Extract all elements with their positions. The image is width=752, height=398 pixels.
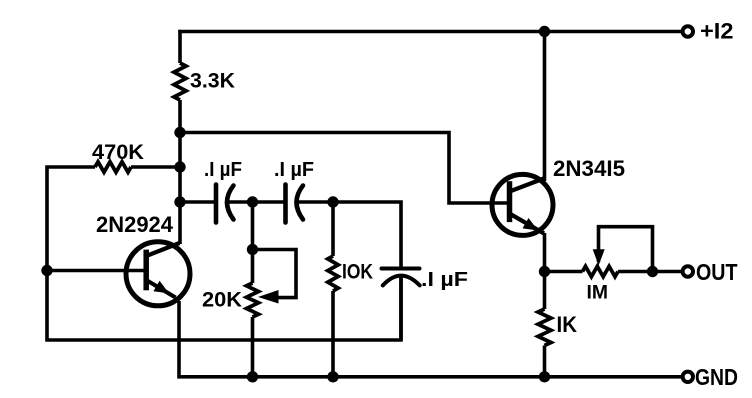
transistor Q1 collector stroke xyxy=(146,243,179,256)
wire: C2/10K node down to R4 xyxy=(331,202,335,256)
wire: R2 left lead, left feedback vertical and bottom return to C3 xyxy=(47,167,401,340)
junction: collector node / wire to Q2 base xyxy=(174,127,185,138)
junction: OUT node (Q2 emitter) xyxy=(539,266,550,277)
terminal OUT xyxy=(683,266,693,276)
junction: C1/20K node xyxy=(247,196,258,207)
svg-text:IK: IK xyxy=(557,312,578,337)
svg-text:IOK: IOK xyxy=(342,261,373,284)
wire: top lead of R1 from +12 rail xyxy=(178,30,182,63)
junction: C2/10K node xyxy=(327,196,338,207)
potentiometer R5 1M xyxy=(583,266,619,276)
junction: 1K on ground rail xyxy=(539,371,550,382)
svg-text:2N34I5: 2N34I5 xyxy=(553,156,625,181)
resistor R2 470K (feedback bias) xyxy=(95,162,131,172)
svg-text:.I µF: .I µF xyxy=(421,269,468,291)
junction: Q2 collector tap on +12 rail xyxy=(539,26,550,37)
resistor R1 3.3K xyxy=(174,63,186,100)
capacitor C1 .1uF (curved plate) xyxy=(227,186,234,220)
wire: 1M wiper bracket xyxy=(599,227,653,272)
wire: collector node to Q2 base xyxy=(180,133,508,204)
wire: 20K bottom lead to ground rail xyxy=(251,317,255,377)
wire: C1 left lead xyxy=(180,200,216,204)
transistor Q2 emitter stroke xyxy=(510,214,545,234)
transistor Q1 2N2924 (body circle) xyxy=(126,242,190,306)
wire: Q2 collector from +12 rail xyxy=(543,32,547,182)
junction: 20K on ground rail xyxy=(247,371,258,382)
capacitor C3 .1uF (straight plate) xyxy=(382,267,420,271)
svg-text:IM: IM xyxy=(587,282,609,303)
resistor R6 1K xyxy=(538,309,551,346)
wire: R4 bottom lead to ground rail xyxy=(331,291,335,377)
transistor Q2 emitter arrowhead xyxy=(523,218,539,231)
wire: C3 bottom lead xyxy=(399,276,403,341)
svg-text:GND: GND xyxy=(695,364,738,390)
wiper arrow of 1M pot xyxy=(593,249,605,265)
junction: C1 input on collector node xyxy=(174,196,185,207)
wire: C1 to C2 xyxy=(228,200,286,204)
junction: 1M wiper tie on output xyxy=(647,266,658,277)
transistor Q2 2N3415 (body circle) xyxy=(492,174,553,235)
transistor Q1 base bar xyxy=(143,250,149,291)
svg-text:OUT: OUT xyxy=(696,259,738,285)
wire: C2 output to C3 top plate xyxy=(297,202,401,269)
terminal +12 xyxy=(683,26,693,36)
junction: R2 470K right end on collector node xyxy=(174,161,185,172)
svg-text:+I2: +I2 xyxy=(700,18,734,43)
wire: +12 supply rail (top) xyxy=(178,30,681,34)
wire: Q1 collector node vertical (R1 bottom to Q1 collector) xyxy=(178,100,182,244)
terminal GND xyxy=(683,372,693,382)
junction: 10K on ground rail xyxy=(327,371,338,382)
svg-text:.I µF: .I µF xyxy=(204,159,242,181)
junction: Q1 base node xyxy=(41,265,52,276)
wire: Q2 emitter down to OUT node xyxy=(543,233,547,272)
wire: 1M to OUT terminal xyxy=(618,270,681,274)
wire: Q1 emitter to ground and ground rail (bottom) xyxy=(179,301,681,377)
wire: OUT node down to R6 xyxy=(543,272,547,310)
capacitor C1 .1uF (straight plate) xyxy=(214,185,219,223)
svg-text:470K: 470K xyxy=(92,141,144,164)
capacitor C3 .1uF (curved plate) xyxy=(383,276,420,286)
capacitor C2 .1uF (curved plate) xyxy=(297,186,304,220)
capacitor C2 .1uF (straight plate) xyxy=(283,185,288,223)
transistor Q1 emitter arrowhead xyxy=(153,281,169,294)
svg-text:.I µF: .I µF xyxy=(274,159,314,181)
resistor R4 10K xyxy=(328,256,338,291)
transistor Q2 collector stroke xyxy=(510,178,546,192)
wire: R6 bottom lead to ground rail xyxy=(543,346,547,377)
wire: Q1 base lead xyxy=(47,269,146,273)
svg-text:3.3K: 3.3K xyxy=(190,70,235,93)
wiper arrow of 20K pot xyxy=(258,290,279,304)
svg-text:2N2924: 2N2924 xyxy=(96,212,174,237)
transistor Q2 base bar xyxy=(507,181,513,222)
svg-text:20K: 20K xyxy=(202,288,242,312)
wire: OUT node to 1M pot xyxy=(545,270,583,274)
wire: R2 right lead xyxy=(131,165,180,169)
wire: C1/20K node down to pot xyxy=(251,202,255,283)
potentiometer R3 20K xyxy=(247,283,259,317)
junction: 20K wiper tie point xyxy=(247,244,258,255)
wire: 20K wiper bracket xyxy=(253,250,297,298)
transistor Q1 emitter stroke xyxy=(146,280,175,298)
